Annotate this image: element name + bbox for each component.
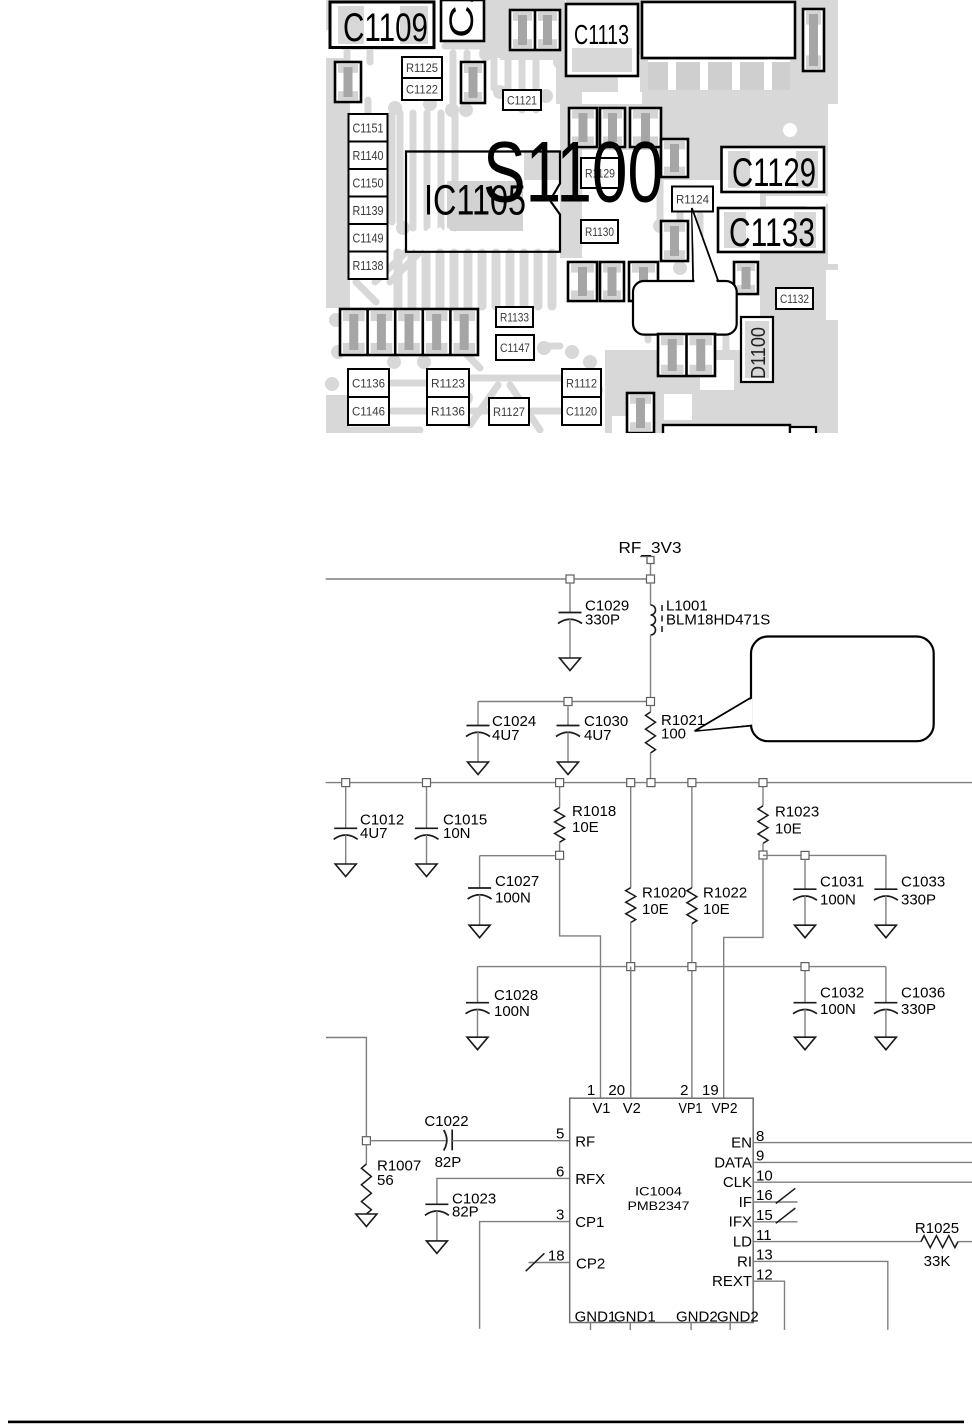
capacitor C1132 (pcb) <box>776 288 813 309</box>
svg-text:R1025: R1025 <box>915 1220 959 1237</box>
svg-text:R1136: R1136 <box>431 405 465 419</box>
svg-text:330P: 330P <box>901 1001 936 1018</box>
svg-text:C1022: C1022 <box>424 1113 468 1130</box>
junction bus/R1021 bottom <box>647 779 655 787</box>
svg-text:R1022: R1022 <box>703 885 747 902</box>
junction at C1029 top <box>566 575 574 583</box>
pins GND1 GND1 GND2 GND2 <box>575 1309 759 1326</box>
pin 13 RI <box>737 1247 888 1330</box>
svg-text:R1130: R1130 <box>585 225 614 239</box>
component pads <box>627 393 654 433</box>
svg-text:C1133: C1133 <box>729 211 815 255</box>
svg-text:100: 100 <box>661 726 686 743</box>
component pads <box>661 139 688 177</box>
component box (pcb top right) <box>642 2 795 90</box>
resistor R1139 (pcb) <box>349 197 388 225</box>
silkscreen text IC1105 (pcb) <box>424 178 526 225</box>
silkscreen text S1100 (pcb) <box>483 125 663 221</box>
svg-text:LD: LD <box>733 1234 752 1251</box>
resistor R1022 10E <box>687 787 747 1099</box>
svg-text:18: 18 <box>548 1248 565 1265</box>
capacitor C1036 330P <box>874 967 945 1050</box>
inductor L1001 BLM18HD471S <box>651 583 771 698</box>
svg-text:IF: IF <box>739 1194 752 1211</box>
svg-text:PMB2347: PMB2347 <box>628 1199 690 1213</box>
resistor R1123 (pcb) <box>427 369 469 397</box>
svg-text:C1036: C1036 <box>901 985 945 1002</box>
svg-text:GND2: GND2 <box>717 1309 759 1326</box>
svg-text:DATA: DATA <box>714 1154 752 1171</box>
svg-text:R1127: R1127 <box>493 405 525 419</box>
component pads <box>568 262 597 301</box>
svg-text:C1032: C1032 <box>820 985 864 1002</box>
svg-text:1: 1 <box>587 1082 595 1099</box>
svg-text:VP1: VP1 <box>679 1100 703 1117</box>
svg-text:100N: 100N <box>495 890 531 907</box>
svg-text:C1031: C1031 <box>820 874 864 891</box>
resistor R1023 10E <box>758 787 819 851</box>
svg-text:GND1: GND1 <box>614 1309 656 1326</box>
svg-text:EN: EN <box>731 1135 752 1152</box>
component pads <box>734 262 758 294</box>
junction bus/C1015 <box>423 779 431 787</box>
svg-text:C1136: C1136 <box>352 377 385 391</box>
svg-text:R1124: R1124 <box>676 193 709 207</box>
svg-text:C1151: C1151 <box>353 121 384 135</box>
resistor R1020 10E <box>626 787 687 1099</box>
svg-text:BLM18HD471S: BLM18HD471S <box>666 612 770 629</box>
svg-text:IC1105: IC1105 <box>424 178 526 225</box>
resistor R1127 (pcb) <box>489 398 529 425</box>
capacitor C1022 82P <box>424 1113 468 1171</box>
svg-text:D1100: D1100 <box>748 327 770 379</box>
callout balloon (schematic) <box>695 637 934 742</box>
diode D1100 (pcb) <box>741 317 773 382</box>
junction C1031 top <box>801 851 809 859</box>
component pads <box>629 262 658 301</box>
net RF_3V3 label <box>619 540 682 557</box>
junction at L1001 top <box>647 575 655 583</box>
capacitor C1120 (pcb) <box>562 397 601 425</box>
capacitor C1033 330P <box>874 855 945 937</box>
capacitor C1015 10N <box>415 787 488 877</box>
junction lower rail/V2 <box>627 963 635 971</box>
capacitor C1108 rotated (pcb) <box>441 0 484 41</box>
resistor R1129 (pcb) <box>581 158 619 188</box>
svg-text:R1133: R1133 <box>500 311 529 325</box>
wire lower rail y966.6 <box>478 966 886 968</box>
capacitor C1129 (pcb) <box>722 147 825 195</box>
capacitor C1109 (pcb) <box>330 2 434 50</box>
svg-text:REXT: REXT <box>712 1273 752 1290</box>
capacitor C1024 4U7 <box>466 702 536 775</box>
pin 19 VP2 wire <box>702 1082 738 1117</box>
svg-text:C1033: C1033 <box>901 874 945 891</box>
svg-text:RF_3V3: RF_3V3 <box>619 540 682 557</box>
svg-text:10N: 10N <box>443 825 471 842</box>
svg-text:C1113: C1113 <box>574 19 629 50</box>
capacitor C1028 100N <box>466 967 539 1050</box>
wire CP1 pin 3 <box>480 1222 570 1329</box>
gnd pin stub <box>729 1323 731 1331</box>
pin 9 DATA <box>714 1148 972 1172</box>
pin 3 CP1 <box>556 1207 604 1232</box>
svg-text:V2: V2 <box>623 1100 641 1117</box>
pin 20 V2 wire <box>608 967 640 1117</box>
capacitor C1023 82P <box>425 1190 496 1253</box>
svg-text:10E: 10E <box>642 901 669 918</box>
component pads <box>661 221 688 261</box>
svg-text:4U7: 4U7 <box>360 825 388 842</box>
capacitor C1133 (pcb) <box>718 208 824 255</box>
junction R1018 bottom <box>556 851 564 859</box>
svg-text:R1140: R1140 <box>353 149 384 163</box>
pin 11 LD <box>733 1227 972 1251</box>
svg-text:4U7: 4U7 <box>584 727 612 744</box>
svg-text:R1125: R1125 <box>406 61 438 75</box>
component pads <box>600 108 625 147</box>
capacitor C1147 (pcb) <box>496 335 534 360</box>
component pads (pcb top) <box>510 10 560 50</box>
resistor R1007 56 <box>356 1145 421 1227</box>
wire mid rail y701.5 <box>478 701 651 703</box>
svg-text:10E: 10E <box>703 901 730 918</box>
svg-text:C1027: C1027 <box>495 873 539 890</box>
svg-text:C1129: C1129 <box>732 151 816 195</box>
svg-text:R1112: R1112 <box>566 377 597 391</box>
svg-text:CP2: CP2 <box>576 1256 605 1273</box>
capacitor C1150 (pcb) <box>349 169 388 197</box>
pcb bottom clip <box>326 433 838 445</box>
pin 15 IFX <box>729 1207 798 1231</box>
junction bus/R1023 <box>759 779 767 787</box>
svg-text:CP1: CP1 <box>575 1214 604 1231</box>
junction RF input node <box>362 1137 370 1145</box>
capacitor C1122 (pcb) <box>402 78 442 100</box>
resistor R1021 100 <box>646 706 706 783</box>
junction R1023 bottom <box>759 851 767 859</box>
capacitor C1012 4U7 <box>334 787 405 877</box>
svg-text:GND2: GND2 <box>676 1309 718 1326</box>
svg-text:IFX: IFX <box>729 1214 752 1231</box>
svg-text:100N: 100N <box>820 1001 856 1018</box>
PCB layout photo background <box>326 0 838 433</box>
svg-text:R1018: R1018 <box>572 803 616 820</box>
terminal RF_3V3 <box>640 557 654 580</box>
pin 10 CLK <box>723 1167 972 1191</box>
svg-text:GND1: GND1 <box>575 1309 617 1326</box>
resistor R1133 (pcb) <box>496 307 533 327</box>
gnd pin stub <box>590 1323 592 1331</box>
resistor R1112 (pcb) <box>562 369 601 397</box>
capacitor C1136 (pcb) <box>348 369 389 397</box>
svg-text:C1132: C1132 <box>780 294 809 306</box>
wire R1023 down jog to VP2 <box>724 859 763 1098</box>
junction lower rail/C1032 <box>801 963 809 971</box>
capacitor C1149 (pcb) <box>349 224 388 252</box>
svg-text:330P: 330P <box>585 612 620 629</box>
svg-text:C1028: C1028 <box>494 987 538 1004</box>
capacitor C1032 100N <box>793 971 864 1050</box>
resistor R1025 33K <box>915 1220 959 1270</box>
svg-text:RI: RI <box>737 1253 752 1270</box>
wire RFX from C1023 <box>437 1178 570 1204</box>
wire power bus y782.6 <box>326 782 972 784</box>
gnd pin stub <box>690 1323 692 1331</box>
svg-text:R1020: R1020 <box>642 885 686 902</box>
svg-text:100N: 100N <box>820 892 856 909</box>
capacitor C1146 (pcb) <box>348 397 389 425</box>
op-amp U IC1004 PMB2347 box <box>570 1098 754 1322</box>
svg-text:C1150: C1150 <box>353 176 384 190</box>
pin 2 VP1 wire <box>679 1082 703 1117</box>
capacitor C1029 330P <box>558 583 629 671</box>
junction bus/R1020 <box>627 779 635 787</box>
junction at C1030 top <box>564 698 572 706</box>
svg-text:R1123: R1123 <box>431 377 465 391</box>
gnd pin stub <box>629 1323 631 1331</box>
svg-text:C1146: C1146 <box>352 405 385 419</box>
capacitor C1031 100N <box>793 859 864 937</box>
IC U1105 outline (pcb) <box>406 152 560 252</box>
PCB copper pours and traces <box>325 0 838 443</box>
wire R1018 to C1027 <box>480 855 556 857</box>
wire RF to C1022 <box>370 1140 446 1142</box>
wire top rail y579 <box>326 578 651 580</box>
resistor R1018 10E <box>555 787 617 852</box>
svg-text:82P: 82P <box>452 1203 479 1220</box>
svg-text:V1: V1 <box>593 1100 611 1117</box>
capacitor C1030 4U7 <box>556 706 628 775</box>
component pads below balloon <box>658 334 715 376</box>
pin 8 EN <box>731 1128 972 1152</box>
svg-text:56: 56 <box>377 1172 394 1189</box>
svg-text:10E: 10E <box>572 819 599 836</box>
svg-text:20: 20 <box>608 1082 625 1099</box>
svg-text:R1023: R1023 <box>775 804 819 821</box>
svg-text:19: 19 <box>702 1082 719 1099</box>
capacitor C1151 (pcb) <box>349 114 388 142</box>
svg-text:330P: 330P <box>901 892 936 909</box>
svg-text:VP2: VP2 <box>712 1100 738 1117</box>
pin 12 REXT <box>712 1266 785 1330</box>
pin 5 RF <box>556 1126 595 1151</box>
svg-text:C1121: C1121 <box>507 94 537 108</box>
pin 6 RFX <box>556 1163 605 1188</box>
component pads <box>600 262 624 301</box>
junction bus/R1022 <box>688 779 696 787</box>
wire R1023 to C1031 C1033 <box>763 854 886 856</box>
capacitor C1121 (pcb) <box>503 90 541 110</box>
callout balloon (pcb) <box>633 208 737 335</box>
wire stub top-left to R1007 <box>326 1038 366 1137</box>
svg-text:C1120: C1120 <box>566 405 597 419</box>
component pads <box>461 62 485 103</box>
svg-text:C1: C1 <box>443 0 481 38</box>
svg-text:33K: 33K <box>924 1253 951 1270</box>
resistor R1138 (pcb) <box>349 252 388 280</box>
resistor R1140 (pcb) <box>349 142 388 170</box>
svg-text:2: 2 <box>680 1082 688 1099</box>
svg-text:RFX: RFX <box>575 1171 605 1188</box>
wire R1018 down jog to V1 <box>560 859 601 1098</box>
svg-text:C1147: C1147 <box>500 341 530 355</box>
component pads (pcb right edge) <box>803 9 824 71</box>
wire C1022 to pin RF <box>452 1140 570 1142</box>
svg-text:R1139: R1139 <box>353 204 384 218</box>
wire CP2 stub pin 18 <box>526 1253 570 1271</box>
junction lower rail/VP1 <box>688 963 696 971</box>
resistor R1136 (pcb) <box>427 397 469 425</box>
component pads <box>569 108 597 147</box>
resistor R1124 (pcb) <box>672 187 713 212</box>
svg-text:RF: RF <box>575 1133 595 1150</box>
pin 1 V1 wire <box>587 1082 611 1117</box>
svg-text:C1122: C1122 <box>406 83 438 97</box>
svg-text:C1149: C1149 <box>353 231 384 245</box>
svg-text:100N: 100N <box>494 1003 530 1020</box>
resistor R1130 (pcb) <box>581 220 618 243</box>
pin 18 CP2 <box>548 1248 605 1273</box>
svg-text:82P: 82P <box>435 1154 462 1171</box>
svg-text:6: 6 <box>556 1163 564 1180</box>
resistor R1125 (pcb) <box>402 57 442 78</box>
svg-text:10E: 10E <box>775 821 802 838</box>
svg-text:CLK: CLK <box>723 1174 752 1191</box>
page footer rule <box>8 1421 964 1424</box>
component pads row <box>340 309 478 355</box>
component pads <box>335 62 361 102</box>
svg-text:R1138: R1138 <box>353 259 384 273</box>
capacitor C1027 100N <box>468 856 540 938</box>
svg-text:4U7: 4U7 <box>492 727 520 744</box>
svg-text:5: 5 <box>556 1126 564 1143</box>
component box clipped (pcb bottom right) <box>663 425 816 437</box>
capacitor C1113 (pcb) <box>566 4 638 76</box>
junction at R1021 top <box>647 698 655 706</box>
component pads <box>630 108 661 147</box>
junction bus/C1012 <box>342 779 350 787</box>
svg-text:IC1004: IC1004 <box>635 1185 682 1199</box>
svg-text:C1109: C1109 <box>343 6 428 50</box>
junction bus/R1018 <box>556 779 564 787</box>
pin 16 IF <box>739 1187 798 1211</box>
svg-text:3: 3 <box>556 1207 564 1224</box>
